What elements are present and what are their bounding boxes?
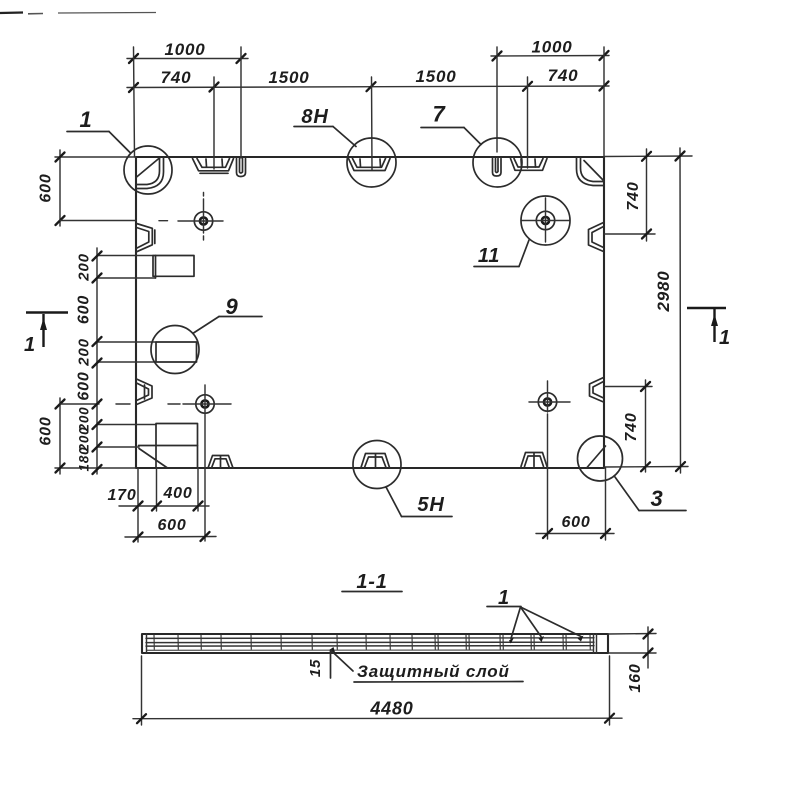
extension line x=371 center [371, 77, 374, 170]
detail circle 11 (anchor loop top-right) [474, 196, 570, 267]
svg-text:1500: 1500 [415, 67, 456, 86]
svg-text:160: 160 [627, 663, 644, 692]
svg-text:1000: 1000 [531, 38, 572, 57]
svg-text:1000: 1000 [164, 40, 205, 59]
svg-text:740: 740 [623, 412, 640, 441]
anchor loop bottom-right [529, 381, 570, 412]
extension line x=214 [213, 77, 215, 169]
bottom edge foot right [521, 453, 547, 467]
dimension 170/400 bottom-left [107, 485, 209, 511]
svg-text:9: 9 [225, 294, 238, 319]
svg-text:600: 600 [38, 416, 55, 445]
extension line left edge up [134, 47, 135, 157]
dimension line 740/1500/1500/740 top [127, 66, 609, 92]
svg-text:400: 400 [162, 485, 192, 502]
extension line right keyhole upper [604, 233, 655, 235]
svg-text:2980: 2980 [654, 270, 673, 312]
svg-text:740: 740 [625, 181, 642, 210]
centerline dash to left edge (top-left anchor) [159, 220, 168, 222]
top edge anchor recess A [193, 159, 234, 174]
svg-text:Защитный слой: Защитный слой [357, 662, 510, 681]
svg-text:600: 600 [157, 517, 186, 534]
svg-text:200: 200 [76, 338, 93, 366]
top edge small tab near 7 [493, 159, 502, 177]
extension line x=241 [240, 47, 242, 158]
left edge plate feature upper [97, 256, 194, 279]
corner detail top-right (rounded band + diagonal) [577, 158, 605, 186]
dimension line 1000 top-right [491, 38, 609, 61]
svg-text:7: 7 [432, 102, 446, 127]
svg-text:600: 600 [561, 514, 590, 531]
protective layer callout [307, 647, 523, 682]
top edge anchor recess 8H [349, 159, 391, 171]
svg-text:5Н: 5Н [417, 494, 444, 516]
centerline vertical down from bottom-right anchor to 600 dim [547, 414, 549, 539]
extension line right keyhole lower [604, 386, 652, 388]
left edge keyhole notch lower [137, 379, 153, 405]
dimension 160 (section right) [608, 627, 656, 693]
svg-text:600: 600 [76, 295, 93, 324]
detail circle 3 (bottom-right corner) [578, 436, 687, 511]
dimension line 1000 top-left [127, 40, 248, 63]
svg-text:1: 1 [719, 327, 731, 349]
detail circle 8H (top middle) [294, 106, 396, 187]
top edge small tab near A [237, 159, 246, 177]
bottom edge foot center (5H) [361, 454, 390, 468]
svg-text:740: 740 [548, 66, 579, 85]
dimension 740 right top [625, 149, 651, 241]
detail circle 7 (top right) [421, 102, 522, 188]
svg-text:200: 200 [76, 253, 93, 281]
svg-text:15: 15 [307, 659, 324, 677]
dimension 600 bottom-left [125, 517, 216, 542]
extension x=198 down [197, 468, 199, 511]
top edge extension left [55, 156, 136, 158]
svg-text:8Н: 8Н [301, 106, 328, 128]
svg-text:180: 180 [77, 447, 92, 472]
dimension 4480 (section) [133, 656, 622, 725]
detail circle 9 (left plate) [151, 294, 262, 374]
left outer dimension line 600 bottom [38, 398, 100, 474]
extension left edge down [137, 468, 139, 542]
bottom edge foot left [208, 456, 233, 469]
fan leader label 1 (section) [487, 587, 584, 644]
svg-text:1: 1 [79, 107, 92, 132]
top edge anchor recess near 7 [511, 159, 548, 171]
svg-text:4480: 4480 [369, 699, 413, 719]
svg-text:740: 740 [161, 68, 192, 87]
bottom edge extension left [55, 467, 136, 469]
dimension 2980 right outer [654, 148, 685, 473]
top edge extension right [604, 155, 692, 158]
left plate feature middle (detail 9) [97, 342, 197, 362]
svg-text:600: 600 [76, 371, 93, 400]
corner detail top-left (rounded band + diagonal) [136, 158, 164, 189]
scan artifact marks top-left [0, 13, 156, 14]
anchor loop top-left [178, 193, 223, 241]
section slab outline [142, 634, 608, 653]
right edge keyhole notch upper [589, 223, 604, 252]
left edge keyhole notch upper [137, 224, 155, 252]
extension line right edge up [603, 47, 605, 157]
svg-text:1500: 1500 [268, 68, 309, 87]
svg-text:170: 170 [107, 487, 136, 504]
section mark 1 left [24, 313, 68, 357]
svg-text:11: 11 [478, 245, 500, 267]
section title 1-1 [342, 571, 402, 593]
centerline vertical down from bottom-left anchor to 600 dim [204, 414, 206, 541]
detail circle 5H (bottom middle foot) [353, 441, 452, 517]
centerline dashes at bottom-left anchor [116, 403, 130, 405]
reinforcement mesh horizontal bars [146, 634, 597, 653]
extension x=156.5 down [156, 468, 158, 511]
left outer dimension line 600 top [38, 150, 137, 226]
anchor loop top-right [522, 198, 569, 242]
reinforcement mesh vertical ribs [154, 635, 590, 650]
bottom-left plate feature [97, 424, 198, 469]
svg-text:600: 600 [38, 173, 55, 202]
anchor loop bottom-left [183, 385, 231, 413]
extension line x=527 [527, 77, 529, 168]
svg-text:1: 1 [24, 334, 36, 356]
slab outline (plan view) [136, 157, 604, 468]
left inner dimension line chain [76, 248, 102, 474]
extension line x=497 [496, 47, 498, 152]
dimension 740 right bottom [623, 380, 650, 472]
svg-text:1-1: 1-1 [356, 571, 387, 593]
right edge keyhole notch lower [590, 378, 604, 403]
svg-text:3: 3 [650, 486, 663, 511]
section mark 1 right [687, 308, 731, 349]
detail circle 1 (top-left corner) [67, 107, 172, 194]
bottom edge extension right [604, 466, 688, 469]
extension right edge down [605, 468, 607, 540]
dimension 600 bottom-right [536, 514, 614, 538]
